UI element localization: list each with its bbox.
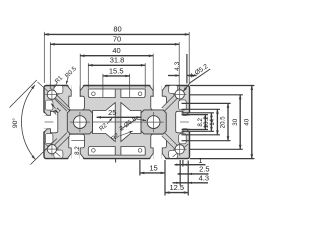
- svg-text:90°: 90°: [11, 118, 19, 129]
- svg-text:4.3: 4.3: [174, 61, 181, 70]
- corner pocket cavity: [169, 85, 178, 93]
- dimension 4.3 bottom: [173, 182, 209, 184]
- svg-text:8.2: 8.2: [74, 146, 81, 155]
- corner pocket cavity: [179, 100, 187, 110]
- dimension 14 right: [216, 109, 218, 135]
- extension lines top: [43, 32, 45, 83]
- core block: [67, 110, 92, 134]
- svg-text:14: 14: [209, 118, 216, 125]
- corner pocket cavity: [45, 134, 53, 144]
- corner pocket cavity: [54, 150, 63, 158]
- dimension 1 bottom: [175, 164, 206, 166]
- svg-text:80: 80: [113, 25, 121, 34]
- dimension 20.5 right: [227, 103, 229, 140]
- corner screw hole: [175, 90, 184, 99]
- dimension 40 right: [251, 86, 253, 159]
- svg-text:15.5: 15.5: [109, 66, 124, 75]
- corner screw hole: [47, 144, 56, 153]
- corner pocket cavity: [169, 150, 178, 158]
- svg-text:12.5: 12.5: [169, 183, 184, 192]
- extension lines right side: [182, 114, 209, 116]
- top-left T-slot cavity: [69, 86, 85, 110]
- callout 4-diam5.2 corner holes: [183, 83, 190, 92]
- dimension 25 between cores: [97, 116, 141, 118]
- svg-text:20.5: 20.5: [220, 116, 227, 129]
- corner screw hole: [175, 145, 184, 154]
- left mid cavity: [93, 103, 116, 142]
- svg-text:30: 30: [232, 118, 239, 125]
- corner hole diagonal centreline bottom-left: [44, 143, 61, 157]
- right side T-slot cavity: [176, 111, 190, 133]
- slot mouth gaps: [71, 84, 80, 87]
- corner screw hole: [47, 90, 56, 99]
- top central channel cavity: [88, 89, 145, 98]
- corner hole diagonal centreline top-left: [38, 82, 71, 111]
- corner hole diagonal centreline bottom-right: [173, 144, 189, 157]
- dimension 4.3 top right: [186, 54, 188, 84]
- svg-text:2.5: 2.5: [199, 165, 209, 174]
- core block: [141, 110, 166, 134]
- svg-text:70: 70: [113, 35, 121, 44]
- top-right T-slot cavity: [151, 86, 167, 110]
- svg-text:25: 25: [108, 108, 116, 117]
- dimension 31.8: [88, 64, 145, 66]
- angle 90 arc: [21, 85, 35, 159]
- dimension 8.2 right: [204, 115, 206, 130]
- centre axis line between cores: [93, 121, 143, 123]
- bottom-left T-slot cavity: [69, 134, 85, 158]
- bottom-right T-slot cavity: [151, 134, 167, 158]
- profile body silhouette: [44, 86, 190, 159]
- svg-text:31.8: 31.8: [110, 56, 125, 65]
- left side T-slot cavity: [44, 111, 58, 133]
- dimension 15 bottom: [140, 172, 165, 174]
- svg-text:15: 15: [149, 163, 157, 172]
- side slot centrelines: [45, 121, 54, 123]
- dimension 40: [80, 55, 153, 57]
- dimension 30 right: [239, 95, 241, 150]
- corner brace web: [54, 134, 69, 149]
- corner pocket cavity: [179, 134, 187, 144]
- corner brace web: [163, 134, 178, 149]
- dimension 10.2 right: [210, 113, 212, 132]
- extension lines bottom: [115, 159, 117, 163]
- bottom central channel cavity: [88, 147, 145, 156]
- corner brace web: [163, 95, 178, 110]
- core centre hole: [147, 116, 160, 129]
- right mid cavity: [121, 103, 141, 142]
- corner pocket cavity: [45, 100, 53, 110]
- svg-text:40: 40: [244, 118, 251, 125]
- corner brace web: [54, 95, 69, 110]
- svg-text:4.3: 4.3: [199, 174, 209, 183]
- dimension 80: [44, 33, 189, 35]
- dimension 70: [50, 43, 179, 45]
- core centre hole: [74, 116, 87, 129]
- angle 90 rays: [10, 80, 37, 108]
- dimension 2.5 bottom: [178, 173, 209, 175]
- corner pocket cavity: [54, 86, 63, 94]
- dimension 12.5 bottom: [165, 192, 188, 194]
- svg-text:1: 1: [198, 156, 202, 165]
- dimension 15.5: [103, 75, 130, 77]
- svg-text:40: 40: [112, 46, 120, 55]
- dimension 8.2 inside: [71, 140, 85, 142]
